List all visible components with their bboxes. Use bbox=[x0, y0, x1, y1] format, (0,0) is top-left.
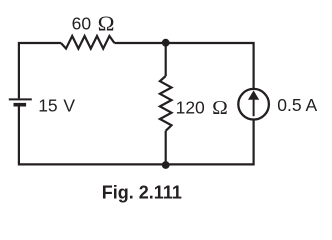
wire top-right (R 60ohm through node a, down to current source) bbox=[114, 43, 253, 89]
svg-text:Ω: Ω bbox=[212, 97, 228, 119]
battery V1 15V top plate (long, positive) bbox=[9, 98, 32, 100]
wire bottom (battery - down, node b rail, up to current source) bbox=[19, 106, 254, 164]
svg-text:Fig. 2.111: Fig. 2.111 bbox=[102, 182, 182, 202]
svg-text:Ω: Ω bbox=[98, 12, 115, 36]
wire top-left (battery + up and over to R 60ohm) bbox=[19, 43, 61, 98]
svg-text:60: 60 bbox=[72, 13, 92, 33]
svg-text:120: 120 bbox=[176, 98, 205, 118]
current source arrow head bbox=[248, 90, 259, 99]
svg-text:0.5 A: 0.5 A bbox=[277, 95, 317, 115]
node a junction dot (top) bbox=[162, 39, 170, 47]
svg-text:V: V bbox=[63, 95, 75, 115]
svg-text:15: 15 bbox=[38, 95, 57, 115]
node b junction dot (bottom) bbox=[162, 161, 170, 169]
current source arrow shaft bbox=[253, 98, 255, 116]
resistor R 120ohm (vertical zigzag) bbox=[160, 76, 172, 131]
battery V1 15V bottom plate (short, thick, negative) bbox=[14, 103, 27, 107]
wire middle branch lower (R 120ohm to node b) bbox=[165, 131, 167, 165]
resistor R 60ohm (horizontal zigzag) bbox=[61, 36, 114, 49]
current source I1 0.5A (circle) bbox=[238, 89, 269, 120]
wire middle branch upper (node a to R 120ohm) bbox=[165, 43, 167, 76]
